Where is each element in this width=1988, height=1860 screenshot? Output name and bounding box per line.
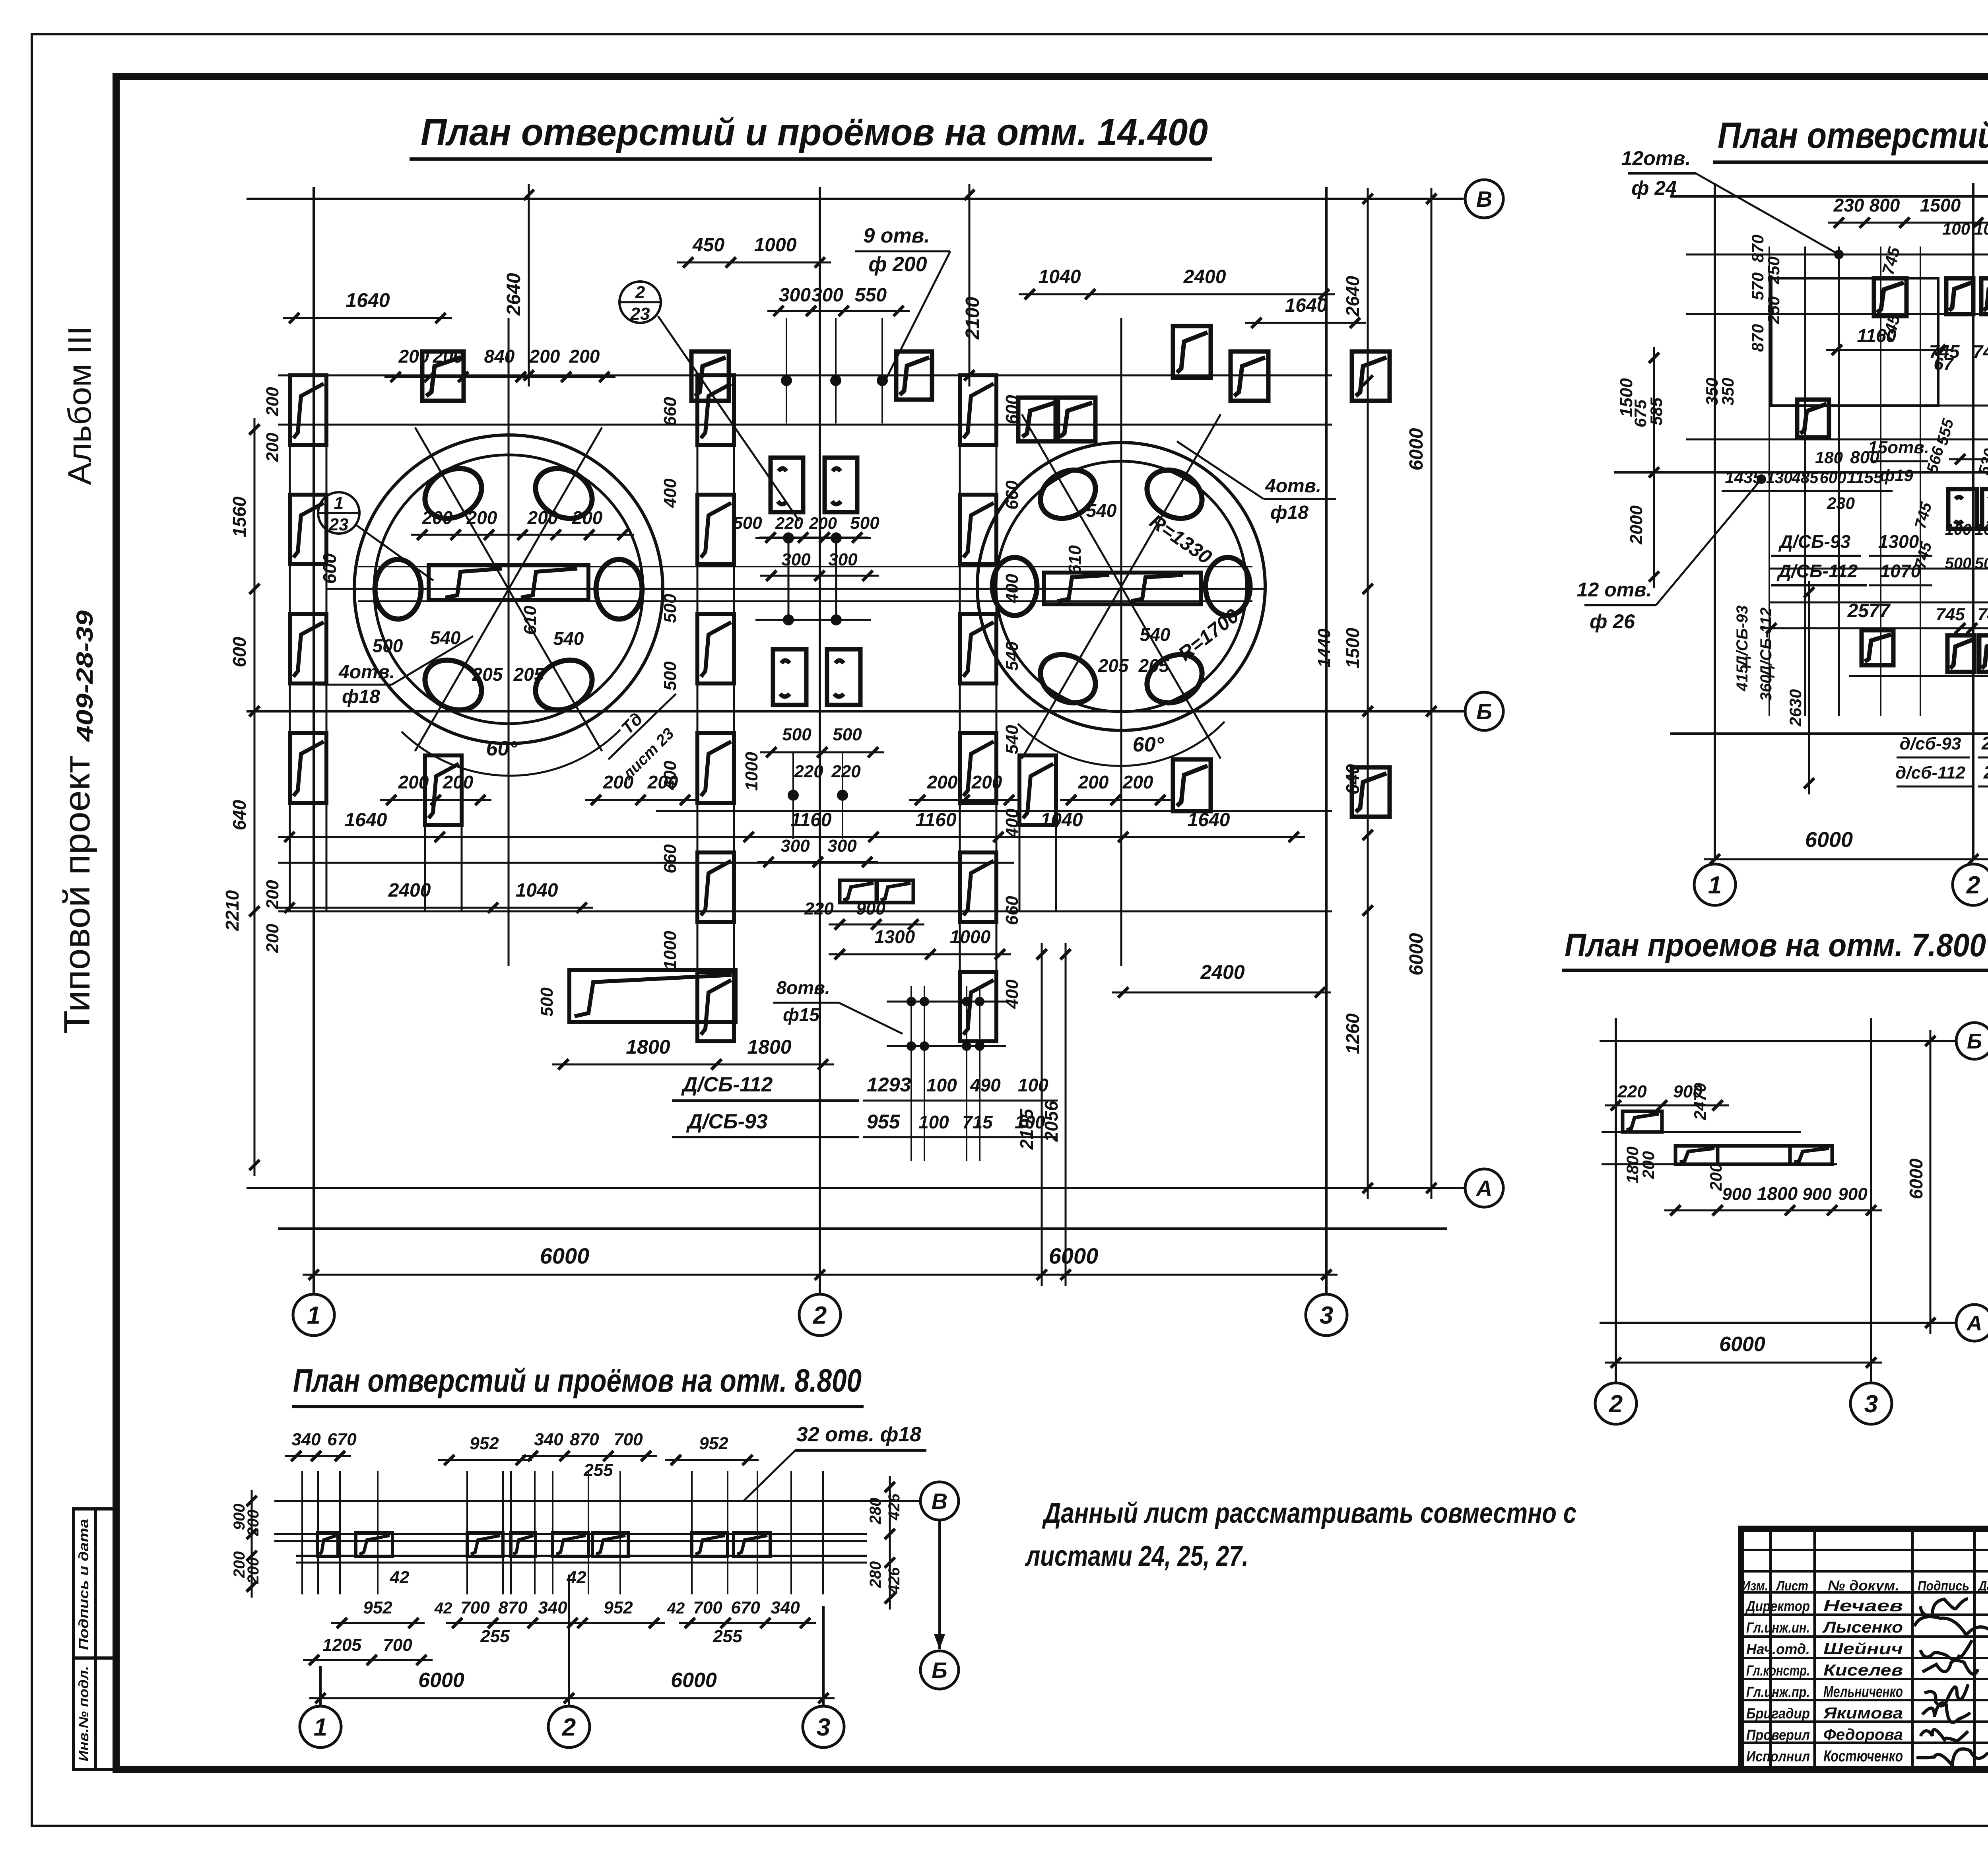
middle bracket rects bottom pair [773, 649, 806, 705]
svg-text:ф 24: ф 24 [1631, 177, 1677, 199]
svg-text:2210: 2210 [222, 890, 243, 931]
opening top mid-right [896, 351, 932, 400]
title block outer [1741, 1529, 1988, 1769]
svg-text:д/сб-93: д/сб-93 [1900, 734, 1961, 753]
svg-text:205: 205 [472, 664, 503, 685]
plan17 left opening 1 [1797, 400, 1829, 437]
right mixer circle outer [977, 443, 1265, 730]
svg-text:200: 200 [1706, 1163, 1725, 1191]
svg-text:1293: 1293 [867, 1074, 911, 1096]
plan88 top dims [285, 1455, 351, 1457]
svg-text:340: 340 [291, 1430, 321, 1449]
axes plan17 horizontal A [1670, 732, 1988, 735]
svg-text:400: 400 [1002, 574, 1022, 604]
right circle center bar [1044, 573, 1201, 604]
svg-text:Киселев: Киселев [1823, 1662, 1903, 1679]
svg-text:610: 610 [520, 606, 540, 635]
opening top mid-left [691, 351, 729, 401]
svg-text:Подпись и дата: Подпись и дата [76, 1519, 91, 1650]
bolt dots 8otv [907, 997, 916, 1006]
svg-text:300: 300 [812, 285, 843, 306]
svg-text:500: 500 [782, 725, 812, 744]
svg-text:3: 3 [1864, 1390, 1878, 1418]
left mixer small ellipses [596, 559, 642, 619]
left mixer circle outer [354, 435, 663, 744]
svg-text:1040: 1040 [516, 880, 558, 901]
svg-text:180: 180 [1815, 448, 1843, 467]
svg-text:485: 485 [1792, 469, 1819, 487]
axis row B horizontal [247, 198, 1464, 200]
svg-text:1800: 1800 [747, 1036, 791, 1058]
dim rotated 2640 [528, 184, 530, 386]
dim 1640 top-left [283, 317, 452, 319]
svg-text:Дата: Дата [1977, 1578, 1988, 1594]
svg-text:300: 300 [827, 836, 857, 856]
svg-text:2000: 2000 [1627, 505, 1646, 545]
svg-text:2400: 2400 [388, 880, 431, 901]
svg-text:2: 2 [1609, 1390, 1623, 1418]
svg-text:2195: 2195 [1016, 1108, 1037, 1150]
plan78 axis B [1600, 1040, 1955, 1042]
svg-text:32 отв. ф18: 32 отв. ф18 [796, 1423, 922, 1446]
svg-text:2640: 2640 [503, 273, 524, 316]
svg-text:255: 255 [480, 1627, 510, 1646]
svg-text:540: 540 [1002, 641, 1022, 671]
svg-text:700: 700 [383, 1635, 412, 1655]
svg-text:670: 670 [731, 1598, 760, 1617]
svg-text:426: 426 [885, 1567, 903, 1594]
svg-text:200: 200 [529, 346, 560, 367]
svg-text:900: 900 [1802, 1184, 1832, 1204]
svg-text:Д/СБ-112: Д/СБ-112 [1757, 608, 1775, 678]
svg-text:280: 280 [867, 1498, 884, 1525]
svg-text:Федорова: Федорова [1823, 1726, 1903, 1744]
svg-text:955: 955 [867, 1111, 901, 1133]
svg-text:200: 200 [527, 507, 558, 528]
svg-text:450: 450 [692, 235, 724, 256]
svg-text:700: 700 [693, 1598, 722, 1617]
axes plan17 horizontal B [1670, 195, 1988, 198]
plan17 mid dims 1160 2808 460 [1826, 349, 1951, 351]
right vertical dim chains [1367, 188, 1369, 1199]
svg-text:6000: 6000 [1805, 828, 1853, 852]
svg-text:Гл.инж.ин.: Гл.инж.ин. [1746, 1619, 1810, 1636]
svg-text:220: 220 [775, 514, 803, 532]
svg-text:250: 250 [1764, 256, 1783, 285]
svg-text:100: 100 [926, 1075, 957, 1095]
plan88 arrow to B2 [938, 1521, 941, 1649]
svg-text:1000: 1000 [742, 752, 761, 791]
opening top right1 [1173, 326, 1211, 378]
svg-text:540: 540 [430, 627, 461, 648]
opening stack center-right [959, 375, 961, 1042]
svg-text:500: 500 [660, 661, 680, 691]
svg-text:Проверил: Проверил [1746, 1727, 1810, 1743]
svg-text:4отв.: 4отв. [338, 662, 395, 683]
left circle center vertical line [508, 318, 510, 966]
svg-text:12 отв.: 12 отв. [1577, 579, 1652, 601]
svg-text:670: 670 [327, 1430, 357, 1449]
svg-text:1: 1 [314, 1714, 327, 1741]
svg-text:230: 230 [1827, 494, 1855, 513]
svg-text:800: 800 [1870, 195, 1900, 216]
axis line 2 vertical [819, 187, 821, 1294]
axes plan17 horizontal B2 [1614, 471, 1988, 474]
svg-text:200: 200 [1639, 1151, 1658, 1179]
dim rotated 2100 [969, 184, 971, 386]
svg-text:ф 200: ф 200 [868, 253, 927, 276]
svg-text:540: 540 [553, 628, 584, 649]
plan17 long horizontals [1686, 254, 1988, 256]
plan78 axis circles [1595, 1383, 1637, 1424]
svg-text:500: 500 [660, 594, 680, 623]
svg-text:200: 200 [422, 507, 453, 528]
svg-text:540: 540 [1086, 500, 1117, 521]
plan center horizontal line [326, 588, 1264, 590]
right circle diagonals [1022, 414, 1221, 759]
svg-text:1160: 1160 [790, 810, 832, 831]
svg-text:2: 2 [1966, 872, 1980, 899]
svg-text:409-28-39: 409-28-39 [72, 610, 98, 742]
plan17 bottom dim 6000 6000 [1704, 858, 1988, 860]
svg-text:1300: 1300 [874, 926, 915, 947]
axis line 3 vertical [1325, 187, 1328, 1294]
svg-text:900: 900 [1838, 1184, 1868, 1204]
svg-text:Нач.отд.: Нач.отд. [1746, 1641, 1810, 1657]
svg-text:15отв.: 15отв. [1868, 438, 1929, 457]
svg-text:952: 952 [699, 1434, 728, 1453]
svg-text:100: 100 [1974, 219, 1988, 238]
axis row B2 circle [1465, 692, 1503, 730]
opening top right2 [1231, 351, 1268, 401]
svg-text:1040: 1040 [1039, 266, 1081, 287]
svg-text:42: 42 [390, 1568, 410, 1587]
svg-text:д/сб-112: д/сб-112 [1895, 763, 1965, 782]
svg-text:1000: 1000 [950, 926, 991, 947]
title block left table rows [1741, 1549, 1988, 1551]
svg-text:План отверстий и проёмов н: План отверстий и проёмов на отм. 14.400 [421, 111, 1208, 153]
opening right of axis3 top [1352, 351, 1390, 401]
svg-text:130: 130 [1766, 469, 1793, 487]
svg-text:3: 3 [1320, 1302, 1333, 1329]
svg-text:1000: 1000 [754, 235, 797, 256]
bottom dimension line 6000+6000 [303, 1274, 1338, 1276]
svg-text:340: 340 [534, 1430, 563, 1449]
svg-text:Бригадир: Бригадир [1746, 1705, 1810, 1722]
axis circle 2 [799, 1294, 841, 1336]
svg-text:200: 200 [572, 507, 603, 528]
svg-text:500: 500 [537, 987, 557, 1017]
svg-text:3: 3 [817, 1714, 830, 1741]
svg-text:№ докум.: № докум. [1828, 1577, 1899, 1594]
svg-text:Д/СБ-112: Д/СБ-112 [681, 1073, 773, 1096]
svg-text:200: 200 [603, 772, 634, 792]
plan17 long verticals [1769, 247, 1770, 716]
svg-text:60°: 60° [486, 737, 518, 760]
svg-text:200: 200 [398, 772, 429, 792]
svg-text:205: 205 [1098, 655, 1129, 676]
svg-text:500: 500 [1945, 555, 1972, 572]
svg-text:1205: 1205 [322, 1635, 361, 1655]
svg-text:2609: 2609 [1983, 762, 1988, 782]
flag 1/23 [318, 492, 359, 534]
plan17 center openings pair [1947, 635, 1974, 672]
svg-text:Типовой проект: Типовой проект [57, 755, 97, 1034]
svg-text:200: 200 [647, 772, 678, 792]
plan78 opening lines [1602, 1131, 1801, 1133]
plan88 openings on strip [317, 1533, 338, 1557]
svg-text:255: 255 [712, 1627, 742, 1646]
svg-text:6000: 6000 [418, 1669, 464, 1692]
dim 1800 1800 [552, 1064, 834, 1066]
svg-text:План отверстий и проёмов н: План отверстий и проёмов на отм. 17.100 [1718, 115, 1988, 156]
svg-text:200: 200 [398, 346, 429, 367]
left mixer circle inner [374, 455, 643, 724]
svg-text:870: 870 [1748, 324, 1767, 352]
svg-text:4отв.: 4отв. [1265, 476, 1321, 497]
plan17 axis circle 2 [1953, 864, 1988, 905]
title block left table verticals [1769, 1529, 1772, 1769]
svg-text:660: 660 [1002, 896, 1022, 925]
svg-text:1435: 1435 [1725, 468, 1762, 487]
svg-text:1500: 1500 [1920, 195, 1961, 216]
svg-text:660: 660 [660, 844, 680, 874]
svg-text:200: 200 [971, 772, 1002, 792]
svg-text:2577: 2577 [1847, 600, 1891, 621]
svg-text:1560: 1560 [229, 496, 250, 537]
svg-text:540: 540 [1140, 624, 1171, 645]
svg-text:200: 200 [263, 433, 282, 462]
svg-text:300: 300 [779, 285, 811, 306]
left vertical dim chain [254, 418, 256, 1176]
plan78 openings [1623, 1111, 1662, 1132]
svg-text:9 отв.: 9 отв. [863, 224, 930, 247]
svg-text:Гл.инж.пр.: Гл.инж.пр. [1746, 1684, 1810, 1700]
svg-text:23: 23 [329, 515, 349, 534]
bolt dots middle [783, 532, 794, 544]
svg-text:Инв.№ подл.: Инв.№ подл. [76, 1666, 91, 1761]
long horizontals through plan [278, 375, 1332, 377]
svg-text:2400: 2400 [1183, 266, 1226, 287]
dim 1040 2400 top-right [1019, 293, 1335, 295]
svg-text:1: 1 [1708, 872, 1722, 899]
svg-text:6000: 6000 [1049, 1243, 1099, 1268]
svg-text:255: 255 [583, 1460, 613, 1480]
svg-text:1500: 1500 [1342, 627, 1363, 668]
svg-text:1640: 1640 [346, 289, 390, 311]
left circle center bar [429, 565, 588, 600]
svg-text:360: 360 [1757, 675, 1775, 701]
svg-text:205: 205 [1138, 655, 1170, 676]
dim 450 1000 top [677, 262, 831, 264]
opening stack on axis 1 [289, 375, 291, 911]
svg-text:220: 220 [831, 762, 861, 781]
plan88 dim 6000 6000 [309, 1697, 835, 1699]
center column 900 rect pair [840, 880, 876, 903]
plan78 verticals [1615, 1018, 1617, 1382]
svg-text:Костюченко: Костюченко [1823, 1747, 1903, 1765]
svg-text:1800: 1800 [626, 1036, 670, 1058]
svg-text:6000: 6000 [1906, 1158, 1926, 1199]
svg-text:220: 220 [794, 762, 823, 781]
svg-text:Директор: Директор [1745, 1598, 1810, 1614]
svg-text:200: 200 [263, 387, 282, 417]
svg-text:220: 220 [1617, 1082, 1647, 1101]
svg-text:60°: 60° [1133, 733, 1165, 756]
svg-text:205: 205 [513, 664, 545, 685]
svg-text:1300: 1300 [1878, 531, 1919, 552]
svg-text:2056: 2056 [1041, 1101, 1062, 1142]
svg-text:листами 24, 25, 27.: листами 24, 25, 27. [1025, 1540, 1248, 1572]
svg-text:2100: 2100 [962, 297, 983, 340]
svg-text:200: 200 [263, 880, 282, 910]
svg-text:2630: 2630 [1786, 689, 1805, 726]
svg-text:В: В [932, 1489, 947, 1514]
svg-text:340: 340 [538, 1598, 567, 1617]
plan17 top cluster rect big [1771, 278, 1938, 406]
svg-text:Гл.констр.: Гл.констр. [1746, 1662, 1810, 1679]
plan78 axis A [1600, 1322, 1955, 1324]
svg-text:2470: 2470 [1691, 1083, 1709, 1120]
opening stack below left circle [424, 755, 426, 911]
opening above left circle [422, 351, 464, 401]
plan17 left opening 2 [1862, 630, 1893, 665]
svg-text:100: 100 [1018, 1075, 1048, 1095]
svg-text:610: 610 [1065, 545, 1085, 575]
svg-text:100: 100 [918, 1112, 949, 1132]
opening above right circle pair [1018, 398, 1058, 441]
svg-text:952: 952 [604, 1598, 633, 1617]
svg-text:ф18: ф18 [1270, 502, 1309, 523]
svg-text:Альбом III: Альбом III [62, 326, 98, 485]
svg-text:400: 400 [1002, 808, 1022, 838]
left circle diagonals 60deg [415, 427, 602, 751]
svg-text:550: 550 [855, 285, 887, 306]
svg-text:Якимова: Якимова [1823, 1705, 1903, 1722]
svg-text:Подпись: Подпись [1918, 1578, 1969, 1594]
svg-text:1160: 1160 [1857, 325, 1897, 346]
plan88 axis circles [300, 1706, 341, 1747]
svg-text:300: 300 [828, 550, 858, 569]
svg-text:500: 500 [833, 725, 862, 744]
svg-text:700: 700 [460, 1598, 490, 1617]
svg-text:6000: 6000 [540, 1243, 590, 1268]
svg-text:660: 660 [660, 397, 680, 426]
svg-text:600: 600 [1820, 469, 1846, 487]
svg-text:745: 745 [1973, 341, 1988, 362]
svg-text:Б: Б [1967, 1029, 1982, 1053]
svg-text:1640: 1640 [345, 810, 387, 831]
svg-text:6000: 6000 [1719, 1333, 1765, 1356]
svg-text:2: 2 [813, 1302, 827, 1329]
svg-text:ф15: ф15 [783, 1004, 820, 1025]
svg-text:42: 42 [667, 1600, 685, 1617]
svg-text:6000: 6000 [1406, 933, 1427, 975]
svg-text:100: 100 [1942, 219, 1970, 238]
svg-text:Б: Б [1476, 699, 1492, 724]
svg-text:6000: 6000 [671, 1669, 717, 1692]
signatures [1920, 1599, 1968, 1616]
opening right of axis3 below B [1352, 767, 1390, 817]
plan17 mid bracket openings [1948, 489, 1977, 529]
svg-text:400: 400 [1002, 979, 1022, 1009]
svg-text:Б: Б [932, 1658, 947, 1683]
svg-text:Нечаев: Нечаев [1823, 1597, 1903, 1615]
opening stack center-left [697, 375, 699, 1042]
axis row A horizontal [247, 1187, 1465, 1189]
plan17 axis circle 1 [1694, 864, 1736, 905]
svg-text:300: 300 [780, 836, 810, 856]
svg-text:ф18: ф18 [342, 686, 380, 707]
svg-text:Д/СБ-93: Д/СБ-93 [1734, 605, 1751, 668]
svg-text:500: 500 [373, 635, 403, 656]
svg-text:Мельниченко: Мельниченко [1823, 1683, 1903, 1701]
axis row B2 horizontal [247, 710, 1465, 713]
svg-text:Д/СБ-93: Д/СБ-93 [1778, 531, 1851, 552]
svg-text:350: 350 [1718, 378, 1737, 406]
svg-text:Шейнич: Шейнич [1823, 1640, 1903, 1658]
svg-text:1500: 1500 [1617, 378, 1636, 417]
svg-text:600: 600 [319, 553, 340, 584]
svg-text:660: 660 [1002, 480, 1022, 510]
svg-text:Исполнил: Исполнил [1746, 1748, 1810, 1765]
right circle vertical center line [1120, 318, 1122, 966]
sidebar table [74, 1509, 116, 1769]
plan88 verticals [301, 1471, 303, 1594]
svg-text:280: 280 [867, 1561, 884, 1588]
svg-text:67: 67 [1934, 354, 1954, 374]
plan17 dims 2577 3250 [1760, 627, 1971, 629]
axis line 1 vertical [313, 187, 315, 1294]
svg-text:А: А [1475, 1176, 1492, 1201]
svg-text:585: 585 [1647, 397, 1666, 425]
svg-text:200: 200 [443, 772, 474, 792]
svg-text:900: 900 [856, 899, 885, 918]
opening rect 1800 long [569, 970, 736, 1022]
axis circle 3 [1306, 1294, 1347, 1336]
svg-text:250: 250 [1764, 296, 1783, 324]
svg-text:840: 840 [484, 346, 515, 367]
svg-text:1: 1 [307, 1302, 320, 1329]
svg-text:200: 200 [809, 514, 837, 532]
svg-text:490: 490 [970, 1075, 1001, 1095]
right mixer small ellipses [1206, 557, 1250, 615]
bottom center dots 300 300 [788, 790, 799, 801]
svg-text:200: 200 [927, 772, 958, 792]
plan17 top dims 230 800 1500 1800 [1828, 222, 1988, 224]
svg-text:42: 42 [434, 1600, 452, 1617]
svg-text:200: 200 [1078, 772, 1109, 792]
flag 2/23 [619, 282, 661, 323]
svg-text:1800: 1800 [1757, 1183, 1798, 1204]
plan17 top openings [1874, 278, 1906, 316]
svg-text:ф19: ф19 [1880, 466, 1914, 485]
bar edge horizontals [358, 566, 1252, 567]
plan78 dim 6000 [1605, 1362, 1882, 1364]
svg-text:500: 500 [1975, 555, 1988, 572]
svg-text:План проемов на отм. 7.800: План проемов на отм. 7.800 [1565, 927, 1986, 963]
svg-text:400: 400 [660, 478, 680, 508]
svg-text:200: 200 [1122, 772, 1153, 792]
svg-text:ф 26: ф 26 [1590, 610, 1635, 633]
svg-text:23: 23 [630, 304, 650, 324]
svg-text:Данный лист рассматривать с: Данный лист рассматривать совместно с [1042, 1497, 1576, 1529]
svg-text:Изм.: Изм. [1742, 1578, 1768, 1594]
axis row B circle [1465, 180, 1503, 218]
svg-text:540: 540 [1002, 725, 1022, 754]
svg-text:1040: 1040 [1041, 810, 1083, 831]
svg-text:В: В [1476, 186, 1492, 212]
